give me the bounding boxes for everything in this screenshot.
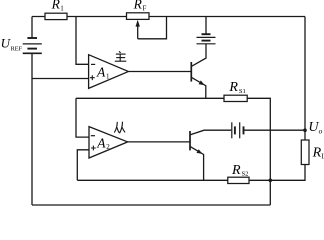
label RL bbox=[312, 145, 324, 160]
transistor Q1 emitter bbox=[191, 77, 206, 98]
wire RS1 to sense column down to bottom rail bbox=[247, 98, 270, 205]
label master (zhu) bbox=[115, 51, 127, 61]
wire A1 output to Q1 base bbox=[128, 71, 191, 73]
wire RL bottom to sense node bbox=[270, 165, 305, 181]
svg-text:1: 1 bbox=[60, 4, 64, 12]
potentiometer RF wiper arrow bbox=[137, 25, 139, 39]
label slave (cong) bbox=[114, 122, 125, 134]
resistor RL bbox=[301, 140, 309, 165]
battery V1 (series cells) bbox=[197, 34, 216, 44]
transistor Q2 base bar bbox=[189, 131, 191, 150]
wire wiper return to rail bbox=[138, 17, 167, 39]
op-amp A2 bbox=[89, 127, 128, 158]
svg-text:o: o bbox=[319, 126, 323, 135]
label Uo bbox=[308, 120, 322, 135]
battery UREF bbox=[23, 38, 42, 53]
svg-text:A: A bbox=[96, 65, 106, 80]
wire left rail (UREF minus to bottom) bbox=[31, 17, 33, 39]
resistor RS2 bbox=[228, 177, 249, 183]
label UREF bbox=[1, 35, 23, 52]
label RF bbox=[133, 0, 147, 13]
wire Q1 emitter sense row bbox=[76, 97, 224, 99]
label R1 bbox=[51, 0, 65, 12]
transistor Q1 collector bbox=[191, 44, 206, 67]
wire RS2 right to sense node bbox=[249, 179, 270, 181]
label A2 bbox=[96, 135, 110, 151]
svg-text:REF: REF bbox=[11, 46, 23, 53]
resistor RS1 bbox=[224, 95, 247, 101]
wire battery V2 to output node bbox=[244, 129, 305, 131]
svg-text:S1: S1 bbox=[239, 88, 246, 95]
svg-text:1: 1 bbox=[106, 73, 110, 81]
svg-text:R: R bbox=[231, 163, 241, 178]
svg-text:2: 2 bbox=[106, 143, 110, 151]
battery V1 stem bbox=[205, 17, 207, 35]
wire bottom rail bbox=[32, 204, 270, 206]
wire A1 non-inverting input bbox=[32, 78, 89, 80]
wire A2 inverting branch bbox=[76, 98, 89, 137]
node output Uo dot bbox=[303, 128, 307, 132]
wire A1 inverting branch bbox=[76, 17, 89, 65]
op-amp A1 bbox=[89, 55, 129, 89]
resistor R1 bbox=[45, 13, 67, 19]
wire right rail bbox=[304, 17, 306, 141]
svg-text:F: F bbox=[143, 5, 147, 13]
svg-text:R: R bbox=[228, 80, 238, 95]
svg-text:A: A bbox=[96, 135, 106, 150]
transistor Q2 emitter bbox=[190, 146, 204, 180]
wire top rail bbox=[32, 16, 305, 18]
svg-text:S2: S2 bbox=[242, 171, 249, 178]
svg-text:R: R bbox=[51, 0, 61, 12]
wire A2 output to Q2 base bbox=[128, 141, 190, 143]
svg-text:R: R bbox=[312, 145, 322, 160]
potentiometer RF body bbox=[127, 13, 150, 20]
node sense dot bbox=[269, 179, 273, 183]
battery V2 (horizontal, collector supply) bbox=[232, 122, 244, 138]
transistor Q2 collector bbox=[190, 130, 231, 135]
wire Q2 emitter row to RS2 bbox=[77, 179, 228, 181]
label A1 bbox=[96, 65, 110, 81]
label RS1 bbox=[228, 80, 245, 95]
wire A2 non-inverting branch bbox=[77, 150, 89, 181]
svg-text:R: R bbox=[133, 0, 143, 12]
label RS2 bbox=[231, 163, 248, 178]
transistor Q1 base bar bbox=[190, 62, 192, 82]
